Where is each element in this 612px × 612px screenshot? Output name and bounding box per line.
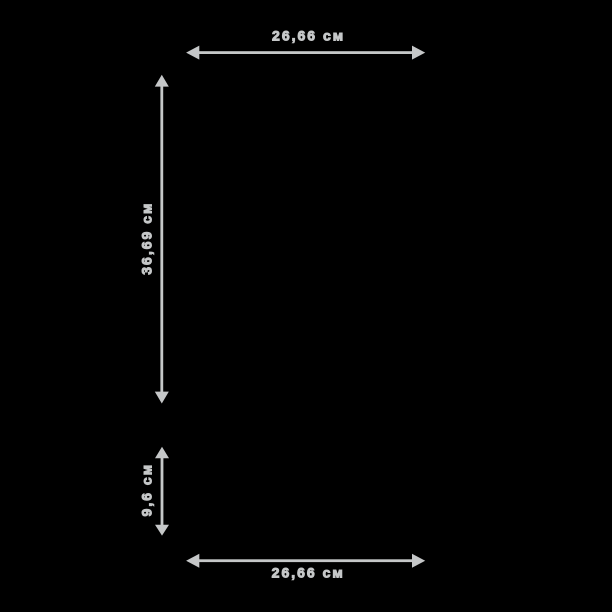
svg-text:9,6 см: 9,6 см: [138, 463, 154, 517]
svg-text:36,69 см: 36,69 см: [138, 202, 154, 275]
svg-text:26,66 см: 26,66 см: [272, 565, 345, 581]
svg-text:26,66 см: 26,66 см: [272, 28, 345, 44]
